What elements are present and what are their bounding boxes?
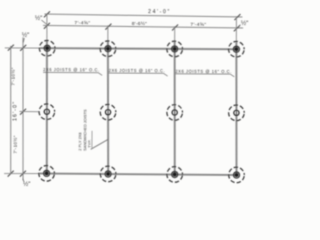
svg-text:TYP.: TYP. bbox=[87, 140, 92, 148]
extension line above column 2 bbox=[107, 25, 109, 41]
pier C1 bbox=[167, 41, 183, 57]
segment dimension line (7'-4 5/8 / 8'-6 1/2 / 7'-4 5/8) bbox=[43, 25, 243, 28]
svg-text:2X6 JOISTS @ 16" O.C.: 2X6 JOISTS @ 16" O.C. bbox=[175, 69, 231, 74]
pier B2 bbox=[100, 104, 116, 120]
pier C3 bbox=[167, 167, 183, 183]
svg-text:2X6 JOISTS @ 16" O.C.: 2X6 JOISTS @ 16" O.C. bbox=[109, 68, 165, 73]
extension line above column 3 bbox=[174, 26, 176, 41]
extension line from top-left pier to left dim lines bbox=[5, 47, 40, 49]
pier A3 bbox=[39, 166, 55, 182]
svg-text:24'-0": 24'-0" bbox=[148, 9, 171, 15]
vertical beam column 2 bbox=[107, 41, 109, 174]
tick at left end of 24'-0" line bbox=[44, 11, 50, 17]
svg-text:8'-6½": 8'-6½" bbox=[132, 20, 147, 27]
pier B1 bbox=[100, 41, 116, 57]
leader for top-left half inch bbox=[41, 20, 46, 24]
pier A1 dashed circle bbox=[39, 40, 55, 56]
pier D2 bbox=[229, 105, 245, 121]
leader from rotated note to column 2 beam bbox=[91, 139, 108, 149]
left inner dimension line (7'-10 1/2 segments) bbox=[22, 37, 23, 180]
tick top of 16'-0" line bbox=[8, 45, 14, 51]
tick row2 on inner dim line bbox=[20, 109, 26, 115]
svg-text:7'-10½": 7'-10½" bbox=[12, 135, 18, 153]
tick at right end of 24'-0" line bbox=[234, 14, 240, 20]
vertical beam column 1 bbox=[46, 41, 47, 174]
svg-text:7'-10½": 7'-10½" bbox=[10, 67, 16, 85]
svg-text:½": ½" bbox=[35, 15, 42, 22]
tick bottom of 16'-0" line bbox=[8, 171, 14, 177]
leader for left-bottom half inch bbox=[23, 178, 24, 182]
extension line above column 4 bbox=[235, 16, 237, 42]
tick row3 on inner dim line bbox=[20, 171, 26, 177]
svg-text:7'-4⅝": 7'-4⅝" bbox=[190, 22, 206, 28]
svg-text:16'-0": 16'-0" bbox=[12, 101, 18, 121]
tick col4 on segment dim line bbox=[234, 25, 240, 31]
leader for left-top half inch bbox=[23, 38, 24, 43]
rotated note: 2 PLY 2X8 SANDWICHED JOISTS TYP. bbox=[77, 109, 92, 151]
pier A2 bbox=[39, 104, 55, 120]
pier B3 bbox=[100, 166, 116, 182]
svg-text:½": ½" bbox=[23, 181, 30, 188]
leader for top-right half inch bbox=[238, 25, 241, 29]
pier D3 bbox=[229, 167, 245, 183]
pier D1 bbox=[229, 41, 245, 57]
vertical beam column 3 bbox=[174, 41, 175, 174]
tick col3 on segment dim line bbox=[172, 24, 178, 30]
svg-text:2X6 JOISTS @ 16" O.C.: 2X6 JOISTS @ 16" O.C. bbox=[43, 67, 99, 72]
extension line from bottom-left pier to left dim lines bbox=[4, 172, 40, 174]
tick col1 on segment dim line bbox=[44, 23, 50, 29]
svg-text:½": ½" bbox=[241, 20, 248, 27]
vertical beam column 4 bbox=[236, 43, 238, 175]
svg-text:7'-4⅝": 7'-4⅝" bbox=[74, 20, 90, 26]
left outer dimension line 16'-0" bbox=[10, 46, 11, 174]
pier C2 bbox=[167, 105, 183, 121]
extension line from middle-left pier to inner dim line bbox=[19, 111, 38, 113]
extension line above column 1 bbox=[46, 13, 48, 40]
tick col2 on segment dim line bbox=[105, 24, 111, 30]
bottom grade beam (row 3) bbox=[40, 173, 237, 175]
top grade beam (row 1) bbox=[40, 48, 237, 49]
svg-text:½": ½" bbox=[22, 32, 29, 39]
top overall dimension line 24'-0" bbox=[44, 14, 242, 17]
tick row1 on inner dim line bbox=[20, 45, 26, 51]
